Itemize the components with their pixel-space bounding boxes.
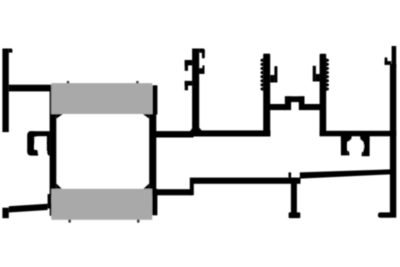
stem2 column	[263, 54, 270, 136]
sloped sill arm	[300, 169, 390, 178]
stem1 right hook arm	[199, 68, 203, 74]
chamfer above bottom thermal break left	[56, 184, 62, 189]
gasket hook left leg	[27, 131, 34, 153]
hat right wall	[299, 96, 305, 110]
gasket channel right foot	[362, 152, 364, 157]
chamfer below top thermal break left	[56, 114, 63, 119]
gasket channel left leg	[341, 136, 347, 155]
gasket hook wall strip	[47, 135, 50, 151]
lower arm step	[190, 178, 194, 196]
junction block left of bottom thermal break	[48, 194, 52, 209]
gasket channel right shoulder	[360, 136, 369, 142]
left flange top lip	[9, 49, 13, 53]
right wall	[390, 64, 396, 218]
gasket hook top arm	[29, 131, 50, 136]
top thermal break nub right	[136, 81, 138, 83]
lower arm left section	[155, 189, 193, 195]
lower arm tick	[289, 172, 292, 177]
gasket hook wall bump	[47, 149, 50, 155]
pendant foot	[289, 212, 301, 218]
stem3 column	[320, 54, 327, 136]
top thermal break nub left	[67, 81, 69, 83]
sliver right of bottom thermal break	[152, 189, 157, 216]
gasket hook cavity circle	[35, 141, 48, 154]
right wall upper thin part	[392, 46, 397, 68]
stem3 right serrations	[326, 58, 329, 91]
platform bar right part	[304, 104, 321, 110]
hat top	[285, 96, 305, 102]
stem3 left hook arm	[316, 74, 320, 82]
right wall of thermal box upper	[152, 85, 157, 114]
stem1 top hook right wall	[202, 50, 205, 59]
right wall bottom foot	[378, 212, 390, 217]
stem1 left hook 1 bar	[185, 60, 193, 65]
right wall top hook arm	[385, 61, 392, 65]
stem1 top hook bar	[199, 49, 205, 53]
stem3 left hook tick	[313, 66, 316, 82]
chamfer above bottom thermal break right	[143, 184, 149, 189]
stem1 left hook 2 leg	[185, 81, 188, 90]
right wall of thermal box lower	[149, 114, 156, 195]
stem1 column	[192, 49, 199, 132]
gasket channel left foot	[347, 151, 349, 156]
platform bar left part	[268, 104, 286, 110]
bottom thermal break nub right	[137, 220, 140, 223]
chamfer below top thermal break right	[143, 114, 149, 119]
bottom thermal break nub left	[68, 220, 71, 223]
sliver left of bottom thermal break	[50, 204, 52, 216]
gasket hook cavity notch	[37, 137, 46, 143]
lower-left arm foot	[2, 208, 8, 219]
hat left wall	[285, 96, 291, 110]
left flange vertical bar	[2, 49, 8, 133]
gasket channel right leg	[363, 136, 369, 156]
stem1 left hook 2 bar	[185, 81, 193, 86]
gasket channel left shoulder	[341, 136, 352, 142]
thermal break bottom (gray)	[51, 189, 152, 220]
stem2 right hook tick	[274, 66, 277, 82]
stem1 right web fillet	[199, 127, 202, 130]
left horizontal arm	[9, 85, 53, 92]
left wall of thermal box	[50, 90, 57, 195]
gasket channel cavity	[347, 138, 364, 155]
right wall top hook tick	[385, 57, 388, 65]
main web left section	[155, 131, 194, 137]
pendant column	[291, 178, 297, 213]
stem1 left web fillet	[190, 128, 192, 131]
lower arm middle section	[194, 178, 301, 184]
main web middle section	[192, 130, 270, 136]
main web right section	[320, 131, 397, 137]
stem1 right hook tick	[202, 65, 204, 74]
sloped lower-left arm	[9, 204, 48, 213]
stem2 right hook arm	[270, 75, 274, 83]
gasket hook bottom arm	[27, 150, 38, 156]
stem2 left serrations	[261, 58, 264, 91]
thermal break top (gray)	[51, 83, 152, 114]
stem1 left hook 1 leg	[185, 60, 188, 71]
